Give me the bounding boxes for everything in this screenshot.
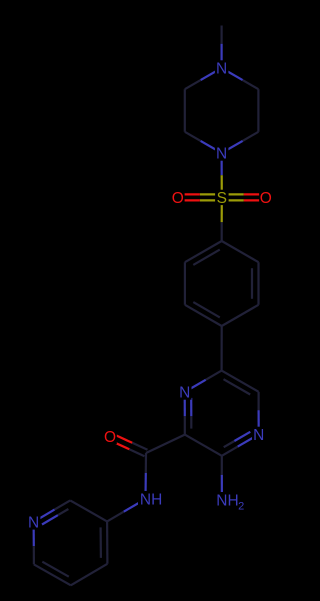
pyrazine bond right edge xyxy=(258,410,260,434)
atom label N4 pyrazine xyxy=(252,427,266,442)
double bond C=O carbonyl xyxy=(132,443,147,450)
svg-text:2: 2 xyxy=(238,501,244,513)
atom label O sulfonyl left xyxy=(171,190,185,205)
bond C-N amide xyxy=(145,453,147,473)
benzene bond top-right xyxy=(222,241,259,262)
bond N1-C piperazine upper-left xyxy=(201,68,222,80)
bond N4-S sulfonamide xyxy=(221,153,223,175)
double bond S=O right xyxy=(222,199,244,201)
atom label NH amide xyxy=(138,491,165,507)
svg-text:N: N xyxy=(179,385,190,402)
svg-text:NH: NH xyxy=(140,492,162,509)
benzene bond bottom-right xyxy=(222,305,259,326)
biaryl bond benzene-pyrazine xyxy=(221,326,223,371)
pyridine bond C5-C4 xyxy=(71,564,108,586)
svg-text:O: O xyxy=(260,190,272,207)
atom label N1 pyrazine xyxy=(178,384,192,399)
svg-text:O: O xyxy=(172,190,184,207)
atom label N piperazine bottom xyxy=(215,145,229,160)
bond C-N1 pyrazine xyxy=(206,371,222,380)
pyrazine double bond N1=C left edge main xyxy=(184,392,186,416)
pyridine bond C3-C2 xyxy=(70,500,107,521)
pyrazine double bond C=N4 bottom-right main xyxy=(222,447,238,456)
benzene double bond bottom-left main xyxy=(185,305,222,326)
bond S-C benzene ipso xyxy=(221,197,223,222)
benzene double bond right edge main xyxy=(257,262,259,305)
bond piperazine left edge xyxy=(184,89,186,132)
atom label N pyridine xyxy=(27,514,41,529)
double bond S=O left xyxy=(200,193,222,195)
bond C-N4 piperazine lower-left xyxy=(185,132,201,141)
pyridine bond N1-C6 xyxy=(32,522,34,546)
svg-text:N: N xyxy=(28,514,39,531)
bond CH3-N1 (piperazine N-methyl) xyxy=(221,26,223,44)
svg-text:NH: NH xyxy=(216,493,238,510)
pyridine double bond C4=C3 main xyxy=(106,521,109,563)
pyrazine bond bottom-left xyxy=(185,435,222,456)
pyridine double bond C6=C5... C5=C6 main xyxy=(34,564,71,585)
atom label O carbonyl xyxy=(103,429,117,444)
bond pyrazine-C carbonyl xyxy=(146,435,185,453)
atom label N piperazine top xyxy=(215,60,229,75)
svg-text:N: N xyxy=(216,61,227,78)
atom label NH2 amine xyxy=(214,492,248,511)
benzene double bond top-left main xyxy=(185,241,222,262)
bond C-N4 piperazine lower-right xyxy=(243,132,259,141)
svg-text:S: S xyxy=(217,190,227,207)
bond piperazine right edge xyxy=(257,89,259,132)
svg-text:N: N xyxy=(216,146,227,163)
benzene bond left edge xyxy=(184,262,186,305)
bond C-NH2 amine xyxy=(221,456,223,475)
svg-text:O: O xyxy=(104,429,116,446)
bond N-C pyridin-3-yl xyxy=(124,499,146,512)
pyridine double bond C2=N1 main xyxy=(55,500,71,509)
svg-text:N: N xyxy=(253,427,264,444)
pyrazine double bond top-right main xyxy=(222,371,259,392)
atom label O sulfonyl right xyxy=(259,190,273,205)
atom label S sulfonyl xyxy=(215,190,229,205)
bond N1-C piperazine upper-right xyxy=(222,68,243,80)
